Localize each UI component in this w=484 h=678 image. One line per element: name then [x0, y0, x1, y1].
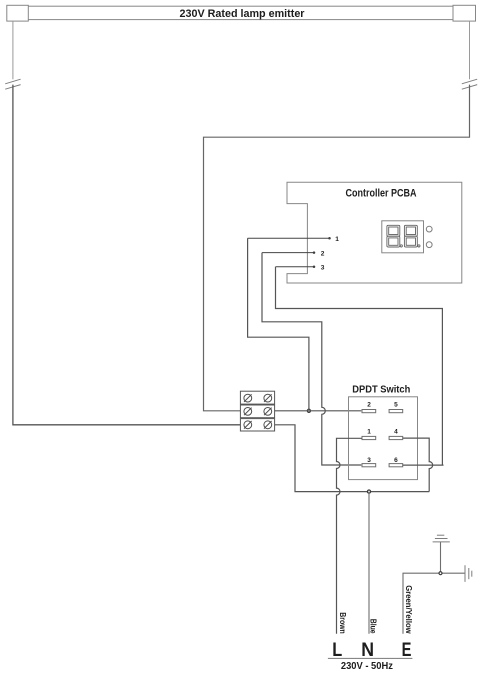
svg-text:3: 3: [321, 265, 325, 272]
svg-text:2: 2: [321, 250, 325, 257]
svg-text:5: 5: [394, 402, 398, 409]
svg-text:Green/Yellow: Green/Yellow: [404, 585, 413, 634]
svg-text:6: 6: [394, 457, 398, 464]
svg-text:1: 1: [335, 236, 339, 243]
svg-text:230V - 50Hz: 230V - 50Hz: [341, 661, 393, 672]
svg-text:4: 4: [394, 428, 398, 435]
svg-text:Controller PCBA: Controller PCBA: [346, 187, 417, 199]
svg-text:Blue: Blue: [369, 619, 378, 634]
svg-text:L: L: [332, 639, 342, 661]
svg-text:Brown: Brown: [338, 612, 347, 634]
svg-text:230V Rated lamp emitter: 230V Rated lamp emitter: [180, 8, 305, 20]
svg-text:2: 2: [367, 402, 371, 409]
svg-text:N: N: [361, 639, 374, 661]
svg-text:DPDT Switch: DPDT Switch: [352, 385, 410, 396]
svg-text:1: 1: [367, 428, 371, 435]
svg-text:E: E: [402, 639, 412, 661]
svg-text:3: 3: [367, 457, 371, 464]
